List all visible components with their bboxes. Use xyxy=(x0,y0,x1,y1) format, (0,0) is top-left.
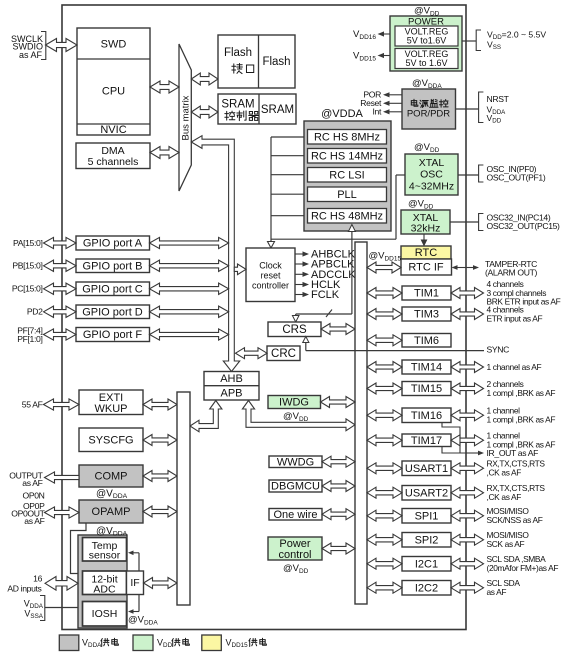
DMA block xyxy=(76,143,150,169)
One wire xyxy=(269,509,322,521)
svg-text:COMP: COMP xyxy=(95,471,128,483)
TIM15 xyxy=(402,382,451,396)
svg-text:CPU: CPU xyxy=(102,86,125,98)
svg-text:IWDG: IWDG xyxy=(279,397,309,409)
CPU block (SWD/CPU/NVIC) xyxy=(77,28,150,135)
svg-text:reset: reset xyxy=(260,271,281,281)
wire AD inputs xyxy=(45,577,78,591)
svg-text:RTC: RTC xyxy=(415,247,437,259)
svg-text:PC[15:0]: PC[15:0] xyxy=(12,284,43,294)
wire TIM17 pins xyxy=(451,435,484,446)
svg-text:@VDD: @VDD xyxy=(283,563,309,575)
svg-text:Bus matrix: Bus matrix xyxy=(181,95,192,140)
wire RTC tamper/alarm xyxy=(458,267,474,269)
label NRST / VDDA / VDD xyxy=(479,92,484,123)
wire CRS to RC48MHz xyxy=(351,229,353,314)
wire TIM15-peripheral bus xyxy=(367,383,402,394)
wire TIM14 pins xyxy=(451,362,484,373)
wire Power control-peripheral bus xyxy=(322,543,355,554)
wire SWD to pins xyxy=(46,39,78,52)
svg-text:VDD: VDD xyxy=(157,638,173,650)
I2C1 xyxy=(402,557,451,572)
wire TIM16 pins xyxy=(451,410,484,421)
wire OPAMP-peripheral bus xyxy=(143,506,177,517)
svg-text:VDD15: VDD15 xyxy=(226,638,249,650)
svg-text:control: control xyxy=(278,549,311,561)
Flash interface + Flash memory xyxy=(218,35,295,88)
svg-text:RC HS 14MHz: RC HS 14MHz xyxy=(311,150,383,162)
TIM1 xyxy=(402,286,451,300)
wire OSC32 pins xyxy=(450,221,479,223)
svg-text:SRAM: SRAM xyxy=(261,104,294,116)
wire One wire-peripheral bus xyxy=(322,509,355,520)
svg-text:,CK as AF: ,CK as AF xyxy=(487,468,522,478)
PLL xyxy=(308,187,387,202)
I2C2 xyxy=(402,581,451,596)
svg-text:RC HS 8MHz: RC HS 8MHz xyxy=(314,131,380,143)
COMP xyxy=(79,465,143,487)
RTC (@VDD15) xyxy=(401,246,451,259)
svg-text:SWD: SWD xyxy=(101,39,127,51)
clock output FCLK xyxy=(296,294,303,296)
TIM3 xyxy=(402,307,451,321)
wire port F pins xyxy=(44,329,77,340)
wire IF-peripheral bus xyxy=(144,578,178,589)
svg-text:Clock: Clock xyxy=(259,261,282,271)
svg-text:VSS: VSS xyxy=(487,39,501,51)
svg-text:NVIC: NVIC xyxy=(100,124,126,136)
wire port D to system bus xyxy=(150,306,229,317)
DBGMCU xyxy=(269,480,322,492)
wire TIM17 IR output xyxy=(442,447,474,454)
voltage regulator 1 xyxy=(395,26,458,46)
wire TIM1 pins xyxy=(451,288,484,299)
svg-text:TIM3: TIM3 xyxy=(414,309,439,321)
wire OPAMP to ADC input xyxy=(71,523,87,574)
svg-text:SCK/NSS as AF: SCK/NSS as AF xyxy=(487,515,543,525)
svg-text:controller: controller xyxy=(252,281,289,291)
ADC group (@VDDA) xyxy=(78,535,127,628)
12-bit ADC xyxy=(83,571,127,595)
svg-text:Flash: Flash xyxy=(262,56,290,68)
svg-text:1 compl ,BRK as AF: 1 compl ,BRK as AF xyxy=(487,388,556,398)
wire system bus to clock controller xyxy=(234,264,246,275)
supply supervisor POR/PDR (@VDDA) xyxy=(402,89,456,129)
bus matrix xyxy=(179,44,191,191)
wire I2C2-peripheral bus xyxy=(367,582,402,593)
svg-text:IF: IF xyxy=(130,577,139,589)
wire XTAL OSC to clock tree xyxy=(271,238,396,240)
svg-text:as AF: as AF xyxy=(24,516,44,526)
svg-text:5 channels: 5 channels xyxy=(88,156,139,168)
svg-text:@VDDA: @VDDA xyxy=(412,78,442,90)
svg-text:OSC_OUT(PF1): OSC_OUT(PF1) xyxy=(487,173,546,183)
svg-text:,CK as AF: ,CK as AF xyxy=(487,492,522,502)
svg-text:RTC IF: RTC IF xyxy=(408,262,444,274)
wire OSC pins xyxy=(458,174,479,176)
GPIO port A xyxy=(76,236,150,250)
clock output HCLK xyxy=(296,284,303,286)
svg-text:VDD16: VDD16 xyxy=(353,29,376,41)
wire port A to system bus xyxy=(150,237,229,248)
wire IF to IOSH xyxy=(138,595,140,612)
svg-text:@VDD: @VDD xyxy=(408,199,434,211)
wire port C to system bus xyxy=(150,283,229,294)
EXTI WKUP xyxy=(79,390,143,415)
svg-text:RC LSI: RC LSI xyxy=(329,169,364,181)
wire TIM15 pins xyxy=(451,383,484,394)
svg-text:TIM6: TIM6 xyxy=(414,335,439,347)
svg-text:as AF: as AF xyxy=(487,587,507,597)
wire SPI1-peripheral bus xyxy=(367,510,402,521)
TIM14 xyxy=(402,360,451,374)
svg-text:NRST: NRST xyxy=(487,94,510,104)
wire TIM14-peripheral bus xyxy=(367,362,402,373)
wire VDD16 xyxy=(384,33,390,35)
wire OPAMP pins xyxy=(45,507,80,518)
svg-text:DBGMCU: DBGMCU xyxy=(271,481,320,493)
wire TIM16 IR output xyxy=(442,423,460,454)
RC HS 48MHz xyxy=(308,209,387,224)
AHB/APB bridge xyxy=(204,372,259,401)
svg-text:(ALARM OUT): (ALARM OUT) xyxy=(485,268,537,278)
svg-text:PF[1:0]: PF[1:0] xyxy=(17,334,42,344)
svg-text:USART1: USART1 xyxy=(405,463,448,475)
svg-text:sensor: sensor xyxy=(89,550,121,562)
svg-text:I2C1: I2C1 xyxy=(415,559,438,571)
svg-text:@VDDA: @VDDA xyxy=(321,108,363,120)
SYSCFG xyxy=(79,428,143,452)
peripheral bus left xyxy=(177,392,190,605)
wire Int xyxy=(390,111,403,113)
svg-text:TIM15: TIM15 xyxy=(411,383,442,395)
legend VDD15 supply xyxy=(202,635,222,651)
svg-text:GPIO port D: GPIO port D xyxy=(82,307,143,319)
wire TIM17-peripheral bus xyxy=(367,435,402,446)
clock output APBCLK xyxy=(296,263,303,265)
svg-text:@VDD: @VDD xyxy=(414,142,440,154)
wire XTAL32 to RTC xyxy=(423,234,425,240)
svg-text:5V to 1.6V: 5V to 1.6V xyxy=(405,58,447,68)
svg-text:TIM1: TIM1 xyxy=(414,288,439,300)
svg-text:OPAMP: OPAMP xyxy=(92,506,131,518)
wire WWDG-peripheral bus xyxy=(322,456,355,467)
svg-text:SPI2: SPI2 xyxy=(415,535,439,547)
svg-text:One wire: One wire xyxy=(273,509,317,521)
TIM16 xyxy=(402,408,451,423)
svg-text:WWDG: WWDG xyxy=(277,456,314,468)
svg-text:TIM16: TIM16 xyxy=(411,410,442,422)
wire SYNC xyxy=(306,350,484,352)
svg-text:@VDD: @VDD xyxy=(414,6,440,18)
svg-text:I2C2: I2C2 xyxy=(415,583,438,595)
svg-text:ADC: ADC xyxy=(93,584,116,596)
wire SPI2-peripheral bus xyxy=(367,534,402,545)
wire USART2-peripheral bus xyxy=(367,487,402,498)
svg-text:WKUP: WKUP xyxy=(95,403,128,415)
POWER block (@VDD) xyxy=(390,16,462,71)
USART2 xyxy=(402,486,451,501)
svg-text:ETR input as AF: ETR input as AF xyxy=(487,313,543,323)
RC LSI xyxy=(308,168,387,183)
wire SYNC to CRS xyxy=(305,341,307,351)
wire USART1 pins xyxy=(451,463,484,474)
wire USART1-peripheral bus xyxy=(367,463,402,474)
wire IF to temp sensor xyxy=(138,553,140,571)
svg-text:IR_OUT as AF: IR_OUT as AF xyxy=(487,448,539,458)
wire CRS-APB bus xyxy=(321,324,355,335)
svg-text:USART2: USART2 xyxy=(405,488,448,500)
wire I2C1-peripheral bus xyxy=(367,558,402,569)
svg-text:GPIO port B: GPIO port B xyxy=(83,261,143,273)
system bus wire (bus matrix to AHB) xyxy=(191,136,239,372)
svg-text:AD inputs: AD inputs xyxy=(7,583,41,593)
svg-text:VSSA: VSSA xyxy=(24,609,43,621)
wire POR xyxy=(390,94,403,96)
svg-text:@VDDA: @VDDA xyxy=(96,488,128,500)
wire EXTI-peripheral bus xyxy=(143,399,177,410)
svg-text:GPIO port A: GPIO port A xyxy=(83,238,143,250)
TIM17 xyxy=(402,434,451,447)
wire port B to system bus xyxy=(150,260,229,271)
OPAMP xyxy=(79,500,143,523)
svg-text:as AF: as AF xyxy=(22,478,42,488)
GPIO port F xyxy=(76,328,150,342)
svg-text:@VDDA: @VDDA xyxy=(128,615,158,627)
wire port A pins xyxy=(44,237,77,248)
wire VDD15 xyxy=(384,55,390,57)
RTC IF xyxy=(401,259,452,275)
wire RC outputs to clock controller xyxy=(271,136,304,138)
wire VDD supply xyxy=(462,40,476,42)
svg-text:XTAL: XTAL xyxy=(419,157,445,169)
wire TIM1-peripheral bus xyxy=(367,288,402,299)
wire VDDA supply xyxy=(45,607,78,609)
legend VDDA supply xyxy=(59,635,79,651)
svg-text:1 channel as AF: 1 channel as AF xyxy=(487,362,542,372)
GPIO port B xyxy=(76,259,150,273)
wire TIM3-peripheral bus xyxy=(367,309,402,320)
XTAL OSC 4-32MHz (@VDD) xyxy=(405,154,458,195)
wire SPI2 pins xyxy=(451,534,484,545)
temp sensor xyxy=(83,538,127,562)
USART1 xyxy=(402,461,451,476)
wire I2C1 pins xyxy=(451,558,484,569)
svg-text:PA[15:0]: PA[15:0] xyxy=(13,238,43,248)
GPIO port C xyxy=(76,282,150,296)
CRC xyxy=(267,346,300,361)
svg-text:1 compl ,BRK as AF: 1 compl ,BRK as AF xyxy=(487,415,556,425)
svg-text:SRAM: SRAM xyxy=(221,98,254,110)
wire RTC-peripheral bus xyxy=(367,262,401,273)
clock reset controller xyxy=(246,248,295,302)
svg-text:SYSCFG: SYSCFG xyxy=(88,435,133,447)
svg-text:AHB: AHB xyxy=(220,373,243,385)
wire APB to peripheral bus (right) xyxy=(242,401,355,431)
wire NRST xyxy=(456,108,479,110)
svg-text:CRS: CRS xyxy=(282,324,307,336)
legend VDD supply xyxy=(133,635,153,651)
wire DBGMCU-peripheral bus xyxy=(322,481,355,492)
wire EXTI pins xyxy=(44,399,80,410)
svg-text:TIM14: TIM14 xyxy=(411,362,442,374)
wire COMP-peripheral bus xyxy=(143,471,177,482)
wire COMP output xyxy=(45,472,80,483)
svg-text:(20mAfor FM+)as AF: (20mAfor FM+)as AF xyxy=(487,563,559,573)
wire CPU-busmatrix xyxy=(150,81,179,93)
XTAL 32kHz (@VDD) xyxy=(401,210,450,234)
svg-text:POR/PDR: POR/PDR xyxy=(407,109,450,120)
wire SYSCFG-peripheral bus xyxy=(143,435,177,446)
svg-text:Flash: Flash xyxy=(224,47,252,59)
svg-text:55 AF: 55 AF xyxy=(22,399,43,409)
wire port C pins xyxy=(44,283,77,294)
SPI1 xyxy=(402,509,451,524)
svg-text:16: 16 xyxy=(33,573,42,583)
svg-text:OP0N: OP0N xyxy=(22,490,44,500)
svg-text:Int: Int xyxy=(372,107,381,117)
TIM6 xyxy=(402,334,451,348)
wire TIM6-peripheral bus xyxy=(367,335,402,346)
svg-text:GPIO port F: GPIO port F xyxy=(83,329,143,341)
wire busmatrix-Flash xyxy=(191,73,218,85)
svg-text:@VDD15: @VDD15 xyxy=(369,251,402,263)
WWDG xyxy=(269,456,322,468)
wire CRC-system bus xyxy=(236,348,268,359)
svg-text:SCK as AF: SCK as AF xyxy=(487,539,525,549)
outer frame xyxy=(62,5,466,630)
svg-text:OSC32_OUT(PC15): OSC32_OUT(PC15) xyxy=(487,221,561,231)
CRS xyxy=(268,322,321,337)
wire TIM16-peripheral bus xyxy=(367,410,402,421)
peripheral bus right xyxy=(355,242,367,604)
svg-text:@VDDA: @VDDA xyxy=(96,526,128,538)
label OSC32_IN / OSC32_OUT xyxy=(479,214,484,231)
svg-text:@VDD: @VDD xyxy=(283,411,309,423)
RC HS 14MHz xyxy=(308,149,387,164)
svg-text:VDDA: VDDA xyxy=(82,638,102,650)
svg-text:PLL: PLL xyxy=(337,189,357,201)
svg-text:RC HS 48MHz: RC HS 48MHz xyxy=(311,210,383,222)
wire APB to peripheral bus (left) xyxy=(190,401,222,432)
IWDG (@VDD) xyxy=(268,396,321,409)
svg-text:CRC: CRC xyxy=(271,348,296,360)
wire Reset xyxy=(390,102,403,104)
svg-text:OSC: OSC xyxy=(420,169,443,181)
wire DMA-busmatrix xyxy=(150,147,179,159)
clock output AHBCLK xyxy=(296,253,303,255)
svg-text:32kHz: 32kHz xyxy=(411,223,441,235)
svg-text:VDD=2.0 ~ 5.5V: VDD=2.0 ~ 5.5V xyxy=(487,29,546,41)
wire SPI1 pins xyxy=(451,510,484,521)
svg-text:as AF: as AF xyxy=(19,50,43,60)
wire busmatrix-SRAM xyxy=(191,106,218,118)
RC oscillator group (@VDDA) xyxy=(304,121,391,231)
clock output ADCCLK xyxy=(296,273,303,275)
wire port B pins xyxy=(44,260,77,271)
wire port F to system bus xyxy=(150,329,229,340)
svg-text:FCLK: FCLK xyxy=(311,289,340,301)
wire USART2 pins xyxy=(451,487,484,498)
wire IWDG-peripheral bus xyxy=(321,397,356,408)
SRAM controller + SRAM xyxy=(218,94,296,124)
svg-text:TIM17: TIM17 xyxy=(411,435,442,447)
svg-text:GPIO port C: GPIO port C xyxy=(82,284,143,296)
svg-text:APB: APB xyxy=(220,388,242,400)
Power control (@VDD) xyxy=(268,537,322,560)
RC HS 8MHz xyxy=(308,130,387,145)
label VDD=2.0~5.5V / VSS xyxy=(476,30,481,51)
svg-text:SPI1: SPI1 xyxy=(415,511,439,523)
wire TIM3 pins xyxy=(451,309,484,320)
svg-text:PB[15:0]: PB[15:0] xyxy=(12,261,42,271)
svg-text:VDD15: VDD15 xyxy=(353,51,376,63)
wire I2C2 pins xyxy=(451,582,484,593)
voltage regulator 2 xyxy=(395,49,458,69)
SPI2 xyxy=(402,533,451,548)
svg-text:IOSH: IOSH xyxy=(92,608,118,620)
svg-text:PD2: PD2 xyxy=(27,307,43,317)
svg-text:SYNC: SYNC xyxy=(487,345,510,355)
label OSC_IN / OSC_OUT xyxy=(479,165,484,182)
svg-text:4~32MHz: 4~32MHz xyxy=(409,181,454,193)
IOSH xyxy=(83,602,127,627)
GPIO port D xyxy=(76,305,150,319)
svg-text:5V to1.6V: 5V to1.6V xyxy=(407,36,447,46)
ADC interface IF xyxy=(127,571,144,595)
wire port D pins xyxy=(44,306,77,317)
